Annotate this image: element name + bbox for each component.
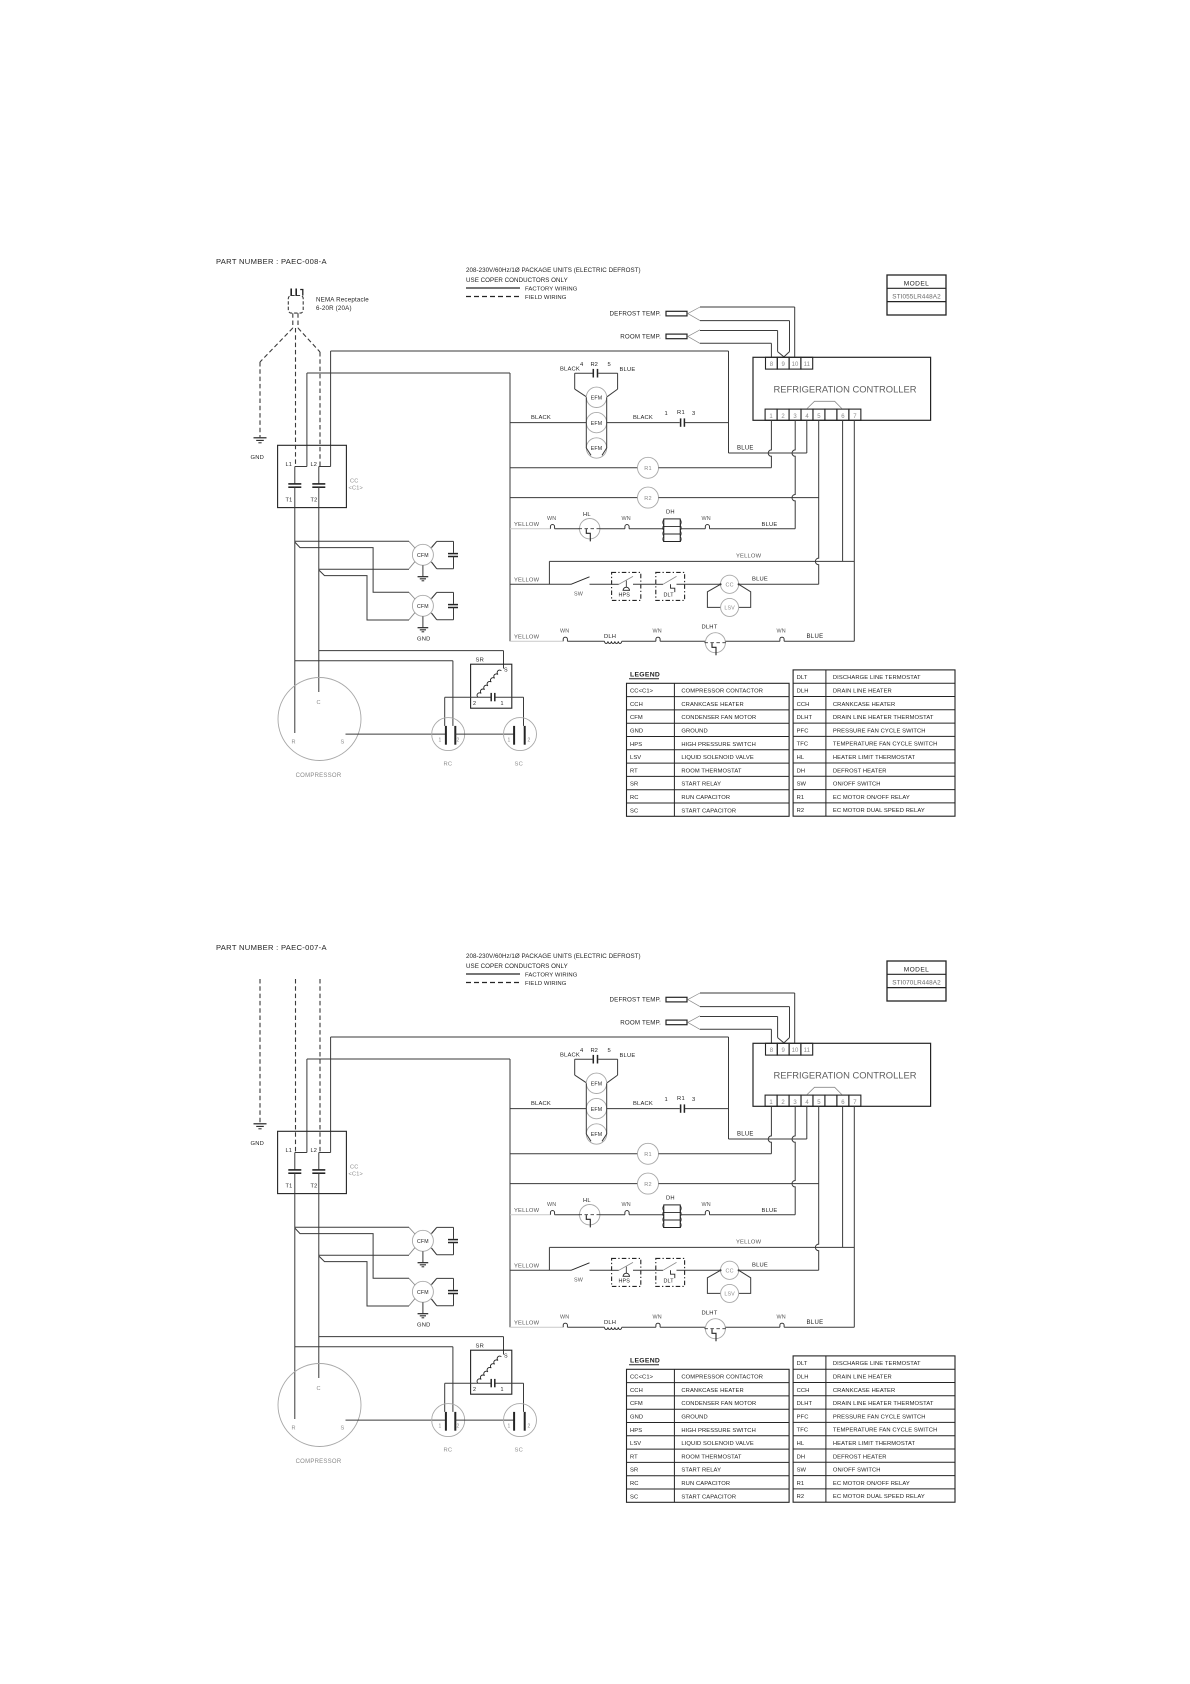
svg-text:MODEL: MODEL <box>904 966 929 973</box>
svg-text:STI070LR448A2: STI070LR448A2 <box>892 979 941 986</box>
svg-text:MODEL: MODEL <box>904 280 929 287</box>
svg-text:PART NUMBER : PAEC-008-A: PART NUMBER : PAEC-008-A <box>216 257 328 266</box>
svg-text:STI055LR448A2: STI055LR448A2 <box>892 293 941 300</box>
svg-text:PART NUMBER : PAEC-007-A: PART NUMBER : PAEC-007-A <box>216 943 328 952</box>
svg-text:6-20R (20A): 6-20R (20A) <box>316 305 352 312</box>
svg-text:NEMA Receptacle: NEMA Receptacle <box>316 297 369 304</box>
